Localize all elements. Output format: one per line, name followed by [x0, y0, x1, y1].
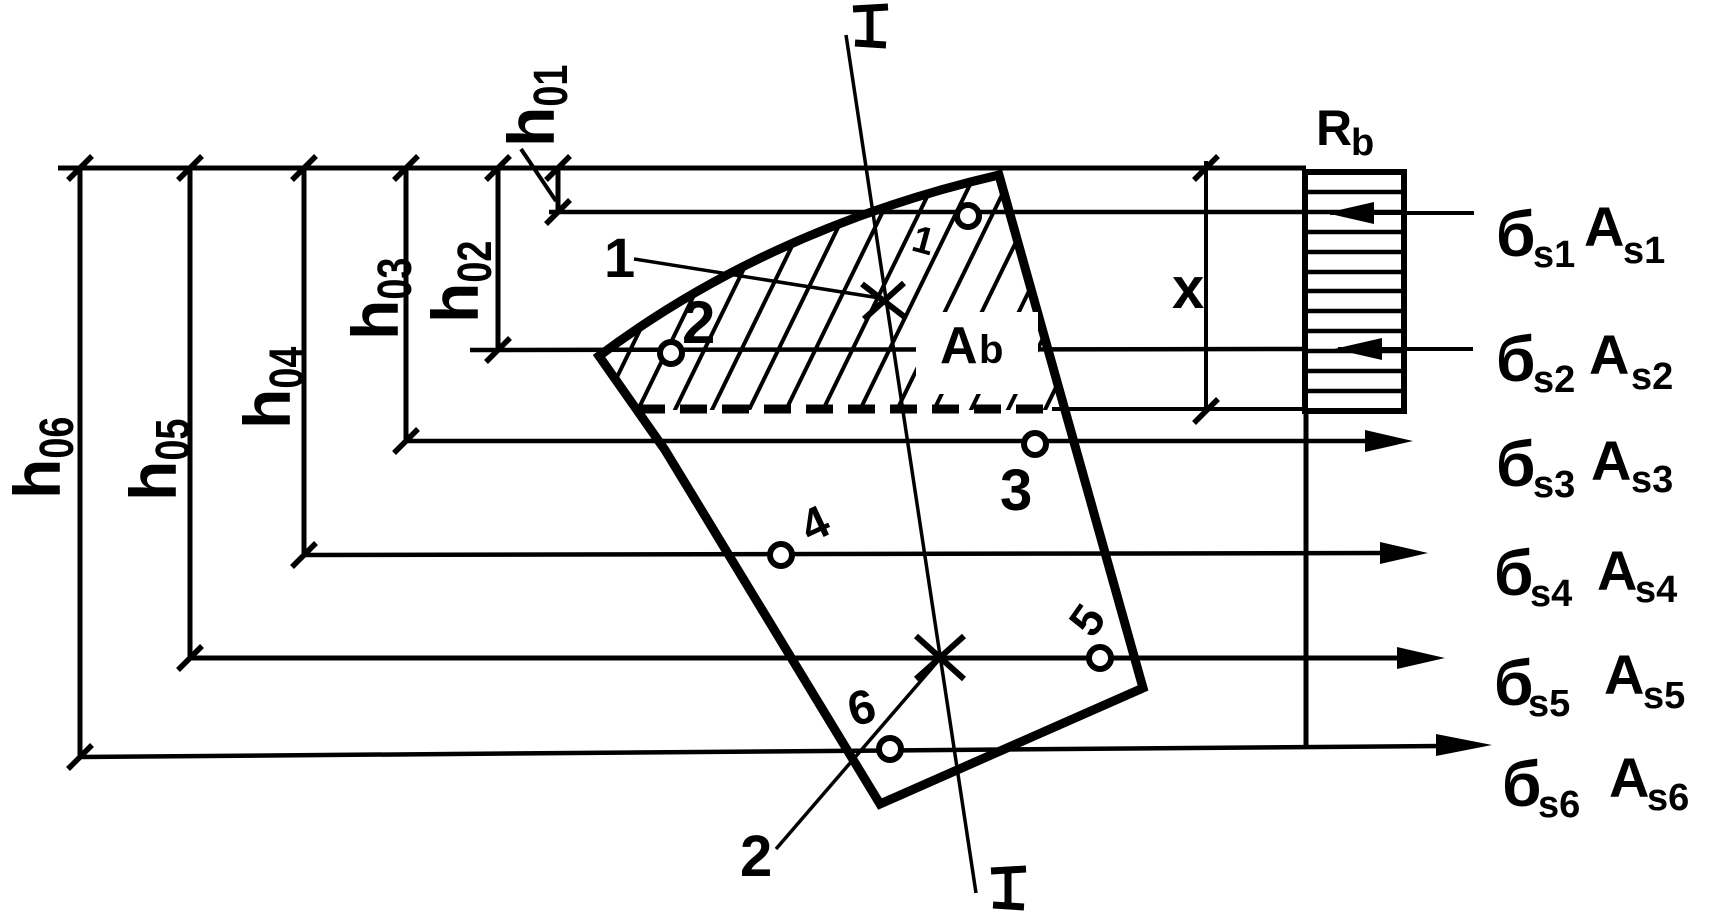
arrow sigma-s3 (pointing right) — [1365, 430, 1413, 452]
svg-text:s1: s1 — [1623, 230, 1665, 272]
svg-text:A: A — [1584, 195, 1624, 258]
svg-text:A: A — [1597, 539, 1637, 602]
section line I-I — [846, 35, 976, 893]
svg-text:b: b — [1351, 122, 1374, 164]
svg-text:3: 3 — [1000, 458, 1032, 523]
section label I top — [853, 7, 888, 45]
X mark 1 — [862, 284, 906, 318]
hatching of compression zone Ab — [560, 158, 1168, 418]
rebar circle 1 — [957, 205, 979, 227]
svg-text:A: A — [1609, 746, 1649, 809]
dimension line h01 — [556, 168, 561, 212]
arrow sigma-s6 (pointing right) — [1436, 734, 1492, 756]
wire sigma-s5 level — [190, 656, 1400, 661]
tick at h03 bottom — [394, 429, 418, 453]
svg-text:б: б — [1496, 198, 1536, 270]
dimension line h04 — [302, 168, 307, 555]
white backing for Ab label — [916, 312, 1038, 394]
x dimension line — [1204, 161, 1208, 411]
wire sigma-s4 level — [304, 553, 1385, 555]
tick at h01 top — [546, 156, 570, 180]
svg-text:b: b — [979, 328, 1003, 372]
svg-text:s5: s5 — [1643, 675, 1685, 717]
rebar circle 2 — [660, 342, 682, 364]
wire sigma-s2 level — [470, 349, 1306, 350]
svg-text:б: б — [1494, 537, 1534, 609]
rebar circle 3 — [1024, 433, 1046, 455]
svg-text:s1: s1 — [1533, 234, 1575, 276]
svg-text:A: A — [940, 317, 978, 375]
stress block rectangle Rb — [1305, 172, 1404, 411]
X mark 2 — [916, 636, 964, 679]
svg-text:x: x — [1172, 256, 1204, 321]
svg-text:s2: s2 — [1533, 359, 1575, 401]
svg-text:s2: s2 — [1631, 356, 1673, 398]
svg-text:б: б — [1496, 428, 1536, 500]
section label I bottom — [991, 869, 1026, 907]
arrow sigma-s1 (pointing left) — [1330, 211, 1474, 215]
svg-text:б: б — [1496, 323, 1536, 395]
wire sigma-s3 level — [406, 439, 1370, 444]
svg-text:s3: s3 — [1533, 464, 1575, 506]
svg-text:2: 2 — [740, 824, 772, 889]
wire sigma-s6 level — [80, 746, 1440, 757]
svg-text:s6: s6 — [1647, 777, 1689, 819]
svg-text:s4: s4 — [1530, 573, 1572, 615]
svg-text:A: A — [1591, 429, 1631, 492]
svg-text:s4: s4 — [1635, 569, 1677, 611]
tick at h04 bottom — [292, 543, 316, 567]
tick at h02 top — [486, 156, 510, 180]
dimension line h03 — [404, 168, 409, 441]
arrow sigma-s2 (pointing left) — [1338, 347, 1473, 351]
tick at h06 top — [68, 156, 92, 180]
tick at h06 bottom — [68, 745, 92, 769]
top dimension line — [58, 166, 1306, 171]
svg-text:A: A — [1589, 323, 1629, 386]
dimension line h05 — [188, 168, 193, 658]
wire sigma-s1 level — [549, 210, 1306, 215]
tick at h02 bottom — [486, 338, 510, 362]
svg-text:2: 2 — [682, 289, 715, 356]
svg-text:б: б — [1502, 748, 1542, 820]
arrow sigma-s4 (pointing right) — [1380, 542, 1428, 564]
rebar circle 5 — [1089, 647, 1111, 669]
tick at h03 top — [394, 156, 418, 180]
neutral axis extension line — [1052, 407, 1306, 411]
svg-text:R: R — [1316, 100, 1352, 156]
tick at x-dim top — [1194, 156, 1218, 180]
tick at h01 bottom — [546, 200, 570, 224]
concrete section outline — [599, 175, 1143, 804]
leader from label 1 to point X1 — [634, 259, 886, 299]
arrow sigma-s5 (pointing right) — [1397, 647, 1445, 669]
tick at h04 top — [292, 156, 316, 180]
tick at h05 bottom — [178, 646, 202, 670]
rebar circle 6 — [879, 738, 901, 760]
svg-text:s6: s6 — [1538, 784, 1580, 826]
svg-text:1: 1 — [604, 226, 635, 289]
dimension line h06 — [78, 168, 83, 757]
svg-text:s3: s3 — [1631, 459, 1673, 501]
leader for h01 — [521, 149, 556, 201]
dimension line h02 — [496, 168, 501, 350]
neutral axis dashed line — [638, 405, 1050, 414]
rebar circle 4 — [770, 544, 792, 566]
svg-text:A: A — [1604, 643, 1644, 706]
tick at x-dim bottom — [1194, 399, 1218, 423]
tick at h05 top — [178, 156, 202, 180]
resultant axis vertical line — [1304, 411, 1309, 748]
svg-text:s5: s5 — [1528, 683, 1570, 725]
leader from label 2 to point X2 — [776, 661, 938, 849]
